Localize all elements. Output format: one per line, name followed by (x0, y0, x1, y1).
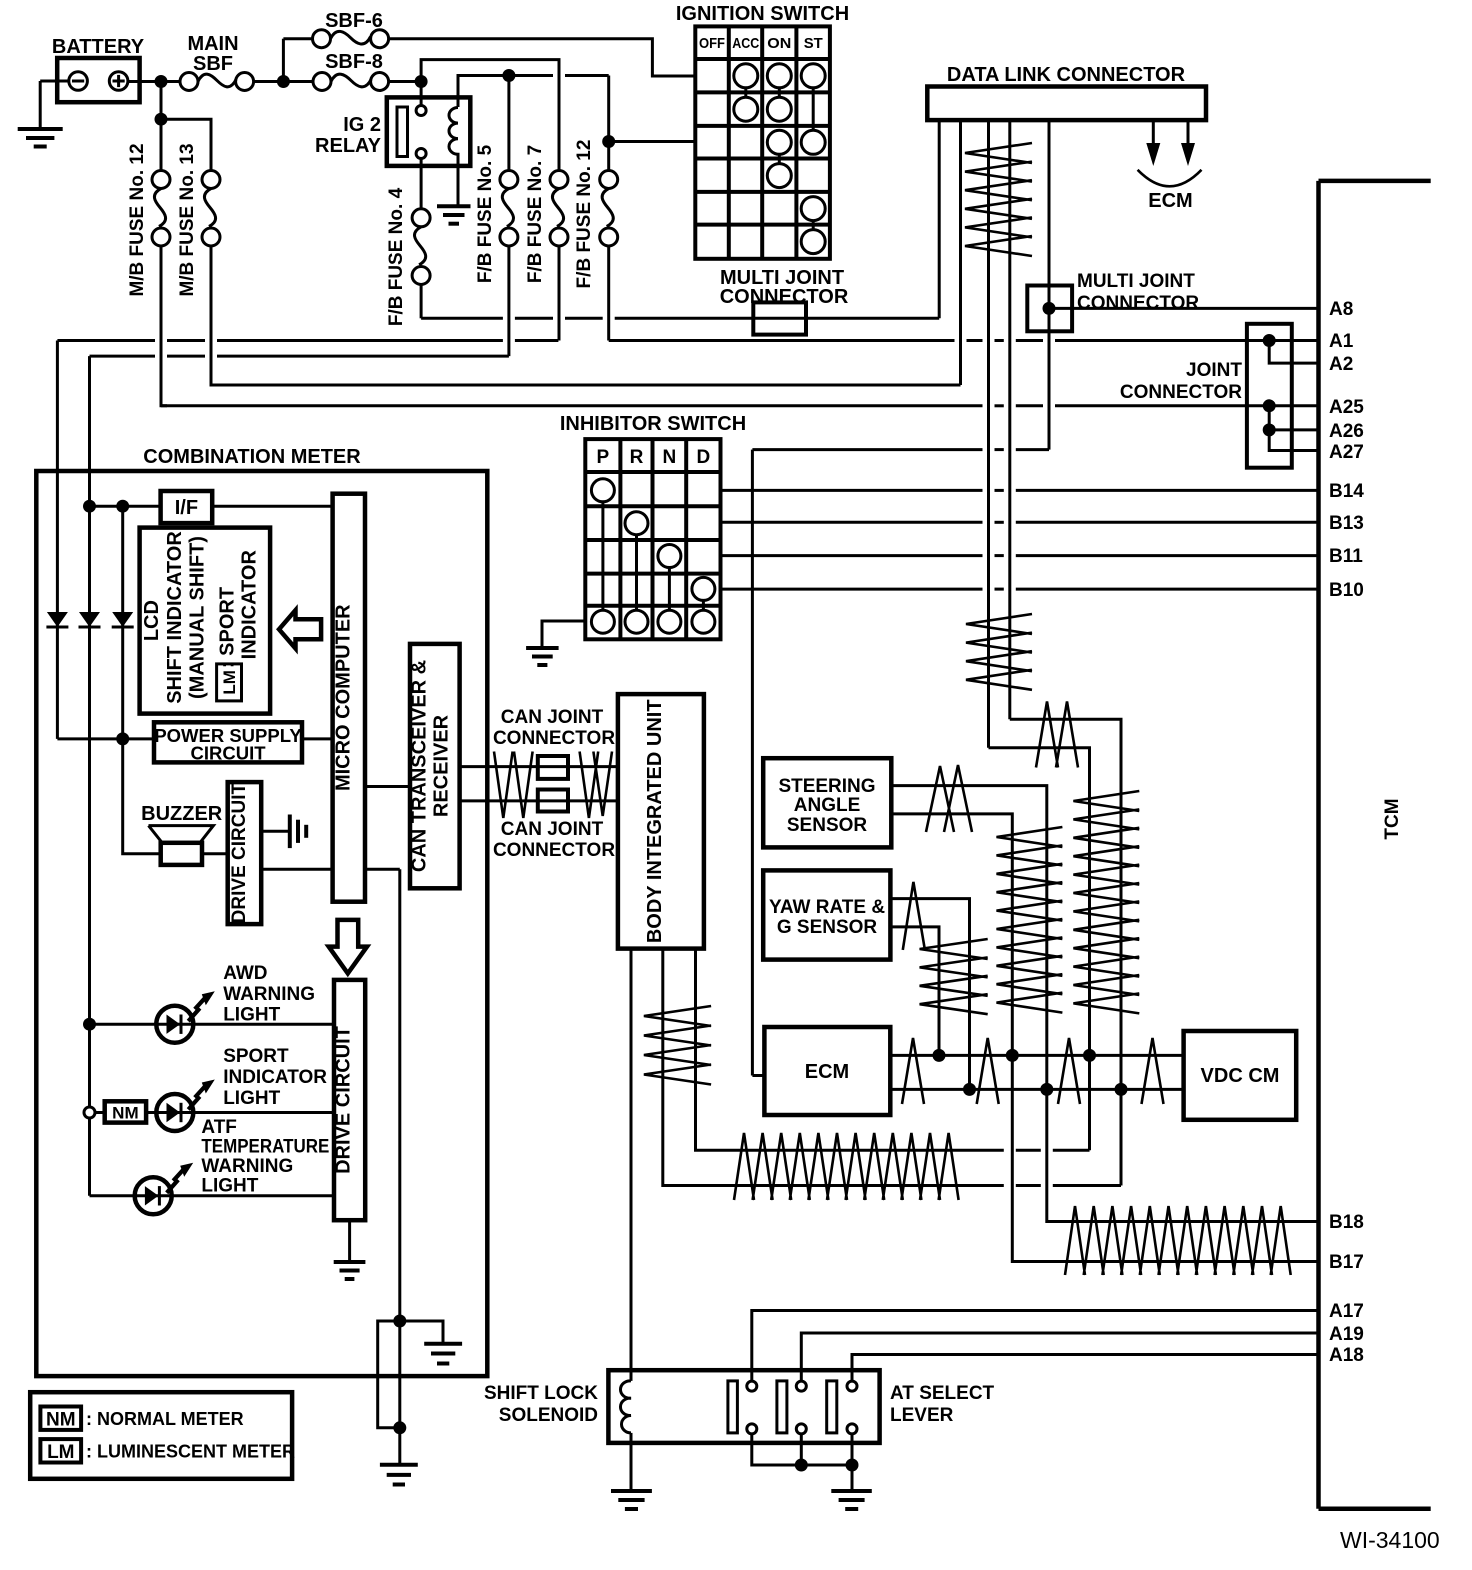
LED sport indicator light (156, 1080, 215, 1132)
label ATF TEMPERATURE WARNING LIGHT (201, 1117, 329, 1197)
wire DLC pin1 drop (938, 120, 941, 318)
fuse M/B FUSE No. 12 (127, 143, 170, 296)
svg-text:DRIVE CIRCUIT: DRIVE CIRCUIT (333, 1026, 355, 1174)
node AWD row junction (83, 1018, 96, 1031)
ground (meter chassis) (380, 1465, 418, 1485)
LED ATF temperature warning light (135, 1163, 194, 1215)
wire inhibitor P to TCM B14 (hop gaps at CAN pair) (721, 489, 1319, 492)
wire relay coil bottom to ground (457, 153, 460, 206)
node J2 SBF-6 branch (277, 75, 290, 88)
wire BIU to shift lock solenoid (630, 949, 633, 1381)
svg-text:IGNITION SWITCH: IGNITION SWITCH (676, 3, 849, 25)
svg-text:CIRCUIT: CIRCUIT (190, 743, 266, 764)
shift lock solenoid / AT select lever box (608, 1370, 879, 1443)
wire J1 down to fuse branch (160, 82, 163, 180)
svg-text:TCM: TCM (1382, 798, 1403, 839)
svg-text:B17: B17 (1329, 1252, 1364, 1273)
legend NM : NORMAL METER (40, 1407, 243, 1431)
label AWD WARNING LIGHT (223, 963, 315, 1026)
wire branch to M/B fuse No.13 (161, 119, 211, 170)
twisted pair (YAW vertical) (920, 939, 988, 1014)
svg-text:B13: B13 (1329, 513, 1364, 534)
wire relay coil top to bus (458, 76, 504, 108)
wire DLC CAN pin3 drop (987, 120, 990, 748)
node bus bottom SAS tap (1040, 1083, 1053, 1096)
node AT select bus 2 (846, 1459, 859, 1472)
node J5 ignition row3 tap (602, 135, 615, 148)
wire YAW CAN H (890, 899, 969, 1090)
twisted pair (DLC CAN upper) (965, 143, 1032, 256)
arrow DLC to ECM pin6 (1146, 120, 1160, 166)
battery BATTERY (52, 36, 145, 102)
svg-text:AWD: AWD (223, 963, 267, 984)
drive circuit DRIVE CIRCUIT (buzzer) (228, 782, 262, 924)
svg-text:ST: ST (804, 35, 823, 52)
node bus top DLC tap (1083, 1049, 1096, 1062)
wire F/B fuse No.12 to TCM A1 (hop gaps at DLC pins) (609, 339, 1319, 342)
wire DLC CAN jog A (989, 748, 1090, 1056)
wire to ignition switch row 3 (609, 140, 696, 143)
svg-text:CONNECTOR: CONNECTOR (493, 728, 615, 749)
svg-text:ACC: ACC (732, 35, 759, 52)
ground (AT select lever) (831, 1491, 872, 1509)
node AT select bus 1 (795, 1459, 808, 1472)
svg-text:IG 2: IG 2 (343, 114, 381, 136)
svg-text:CONNECTOR: CONNECTOR (1120, 382, 1242, 403)
svg-text:R: R (630, 447, 644, 468)
micro computer MICRO COMPUTER (332, 494, 365, 902)
wire solenoid to ground (630, 1433, 633, 1491)
svg-text:F/B FUSE No. 12: F/B FUSE No. 12 (574, 140, 595, 289)
wire CAN bus low (ECM to VDC CM) (890, 1088, 1183, 1091)
wire micro computer to CAN transceiver (365, 785, 410, 788)
diode D1 (meter) (46, 612, 68, 739)
wire M/B fuse No.12 to TCM A25 (hop gaps at DLC pins) (161, 404, 1319, 407)
svg-text:NM: NM (46, 1410, 76, 1431)
svg-text:A26: A26 (1329, 421, 1364, 442)
wire AT select 3 to TCM A18 (852, 1355, 1319, 1382)
wire joint connector A1 to A2 (1269, 341, 1318, 364)
svg-text:SBF-8: SBF-8 (325, 51, 383, 73)
wire BIU CAN drop B (696, 949, 1004, 1151)
svg-text:P: P (597, 447, 610, 468)
wire buzzer to drive circuit 1 (202, 852, 228, 855)
svg-text:(MANUAL SHIFT): (MANUAL SHIFT) (187, 536, 209, 699)
svg-text:ON: ON (767, 35, 791, 52)
node bus top SAS tap (1006, 1049, 1019, 1062)
node joint connector A25 (1263, 399, 1276, 412)
steering angle sensor STEERING ANGLE SENSOR (763, 758, 891, 847)
svg-text:A2: A2 (1329, 354, 1353, 375)
AT select switch 1 (728, 1381, 757, 1434)
wire PSC to micro computer (302, 737, 333, 740)
drive circuit DRIVE CIRCUIT (warning lights) (333, 980, 366, 1220)
wire AWD row (90, 1023, 335, 1026)
wire PSC riser drop (121, 506, 124, 739)
ground (drive circuit 2) (334, 1262, 366, 1279)
node joint connector A1 (1263, 334, 1276, 347)
wire SBF-8 to relay junction (389, 80, 422, 83)
arrow DLC to ECM pin7 (1181, 120, 1195, 166)
fuse F/B FUSE No. 5 (475, 144, 518, 283)
svg-text:SHIFT LOCK: SHIFT LOCK (484, 1383, 598, 1404)
wire MAIN SBF to SBF-8 (254, 80, 313, 83)
svg-text:LM: LM (220, 670, 239, 695)
svg-text:I/F: I/F (175, 497, 198, 519)
wire battery positive bus (128, 80, 180, 83)
svg-text:VDC CM: VDC CM (1201, 1065, 1280, 1087)
svg-text:BUZZER: BUZZER (141, 803, 223, 825)
wire drive circuit 1 to ground (261, 830, 290, 833)
svg-text:SBF: SBF (193, 53, 233, 75)
diode D3 (meter) (112, 612, 134, 627)
svg-text:CAN TRANSCEIVER &: CAN TRANSCEIVER & (409, 660, 431, 872)
wire F/B fuse No.7 output (558, 246, 561, 341)
svg-text:SPORT: SPORT (223, 1046, 289, 1067)
svg-text:SHIFT INDICATOR: SHIFT INDICATOR (164, 531, 186, 704)
twisted pair (B18/B17 horizontal) (1065, 1206, 1291, 1275)
label SPORT INDICATOR LIGHT (223, 1046, 327, 1109)
svg-text:ECM: ECM (1148, 190, 1192, 212)
node J1 battery/fuse junction (155, 75, 168, 88)
buzzer BUZZER (141, 803, 223, 865)
svg-text:RECEIVER: RECEIVER (431, 714, 453, 817)
ground (battery) (18, 129, 63, 147)
connector open circle (sport row) (84, 1107, 95, 1118)
CAN joint connector (upper) (493, 707, 615, 779)
wire F/B fuse No.7 to combination meter (hop gaps at F/B5, M/B13, M/B12) (57, 341, 558, 615)
wire CAN H to body integrated unit (460, 765, 618, 768)
wire inhibitor R to TCM B13 (hop gaps at CAN pair) (721, 521, 1319, 524)
twisted pair (BIU CAN horizontal) (734, 1133, 959, 1200)
fuse F/B FUSE No. 4 (386, 159, 430, 327)
svg-text:RELAY: RELAY (315, 135, 382, 157)
body integrated unit BODY INTEGRATED UNIT (618, 694, 704, 949)
svg-text:MICRO COMPUTER: MICRO COMPUTER (332, 604, 354, 791)
svg-text:MAIN: MAIN (187, 33, 238, 55)
wire meter ground loop (378, 1321, 400, 1428)
node MJC2 junction (1043, 302, 1056, 315)
svg-text:CONNECTOR: CONNECTOR (493, 840, 615, 861)
svg-text:LIGHT: LIGHT (201, 1176, 258, 1197)
node meter ground junction 2 (393, 1421, 406, 1434)
data link connector DATA LINK CONNECTOR (927, 64, 1206, 120)
svg-text:F/B FUSE No. 7: F/B FUSE No. 7 (525, 145, 546, 283)
svg-text:COMBINATION METER: COMBINATION METER (143, 446, 361, 468)
wire F/B fuse No.12 output (607, 246, 610, 341)
node bus bottom DLC tap (1115, 1083, 1128, 1096)
twisted pair (CAN to joint connector, left) (494, 752, 533, 819)
wire TCM A26 stub (1269, 428, 1318, 431)
ground (meter internal) (424, 1344, 462, 1364)
wire AT select 2 to TCM A19 (801, 1333, 1318, 1381)
svg-text:A27: A27 (1329, 442, 1364, 463)
wire MJC2 down to ECM riser (hop gaps at CAN pair) (752, 450, 1049, 1076)
wire joint connector A25 to A26 (1268, 406, 1271, 430)
wire SPORT row (95, 1111, 334, 1114)
wire drive circuit to micro computer to meter ground riser (261, 868, 400, 871)
twisted pair (bus twist 3) (1058, 1038, 1080, 1104)
svg-text:A1: A1 (1329, 331, 1354, 352)
svg-text:MULTI JOINT: MULTI JOINT (1077, 271, 1195, 292)
wire joint connector A26 to A27 (1269, 430, 1318, 451)
ground (shift lock solenoid) (611, 1491, 652, 1509)
svg-text:CONNECTOR: CONNECTOR (720, 286, 849, 308)
combination meter COMBINATION METER box (36, 446, 487, 1376)
wire coil bus to F/B fuse No.5 and No.12 (504, 74, 553, 77)
svg-text:LIGHT: LIGHT (223, 1005, 280, 1026)
wire meter ground riser (398, 869, 401, 1428)
wire F/B fuse No.4 to DLC pin1 (hop gaps at F/B5, F/B7, F/B12) (421, 317, 939, 320)
wire battery negative to ground (40, 80, 69, 83)
twisted pair (bus twist 1) (902, 1038, 924, 1104)
CAN joint connector (lower) (493, 790, 615, 862)
svg-text:JOINT: JOINT (1186, 360, 1242, 381)
wire TCM B17 (1012, 1055, 1318, 1261)
svg-text:DATA LINK CONNECTOR: DATA LINK CONNECTOR (947, 64, 1186, 86)
yaw rate sensor YAW RATE & G SENSOR (763, 870, 890, 959)
wire TCM A8 from MJC2 (1049, 307, 1319, 310)
wire SBF-6 branch riser (282, 39, 285, 82)
arrow (sport indicator pointer) (279, 610, 321, 648)
wire DLC pin5 to MJC2 (1048, 120, 1051, 450)
wire SBF-8 output up-over to F/B fuse No.7 (421, 60, 559, 171)
wire F/B fuse No.4 output to DLC pin1 line (420, 285, 423, 319)
svg-text:LIGHT: LIGHT (223, 1088, 280, 1109)
svg-text:: SPORT: : SPORT (217, 587, 239, 668)
node I/F line PSC drop (116, 500, 129, 513)
wire J3 down to relay contact (420, 82, 423, 107)
svg-text:SBF-6: SBF-6 (325, 10, 383, 32)
AT select switch 3 (827, 1381, 857, 1434)
LCD shift indicator box (140, 528, 271, 714)
node bus top yaw tap (933, 1049, 946, 1062)
twisted pair (DLC CAN lower) (966, 614, 1032, 690)
wire inhibitor D to TCM B10 (hop gaps at CAN pair) (721, 588, 1319, 591)
svg-text:LM: LM (47, 1442, 74, 1463)
svg-text:A18: A18 (1329, 1345, 1364, 1366)
wire SBF-6 to ignition switch (389, 39, 696, 76)
node joint connector A26 (1263, 423, 1276, 436)
ignition switch IGNITION SWITCH (676, 3, 849, 259)
twisted pair (bus twist 4) (1142, 1038, 1164, 1104)
NM box (sport row) (105, 1101, 146, 1122)
svg-text:OFF: OFF (699, 35, 725, 52)
svg-text:F/B FUSE No. 5: F/B FUSE No. 5 (475, 144, 496, 283)
joint connector JOINT CONNECTOR (1120, 324, 1292, 468)
svg-text:DRIVE CIRCUIT: DRIVE CIRCUIT (229, 783, 250, 924)
fuse SBF-8 (313, 51, 389, 91)
svg-text:A25: A25 (1329, 397, 1364, 418)
wire inhibitor switch common to ground (542, 621, 585, 648)
twisted pair (SAS horizontal) (926, 765, 972, 832)
svg-text:N: N (663, 447, 677, 468)
wire AT select 1 to TCM A17 (752, 1311, 1319, 1382)
svg-text:CAN JOINT: CAN JOINT (501, 819, 604, 840)
VDC control module VDC CM (1184, 1031, 1297, 1120)
wire to chassis ground (398, 1428, 401, 1465)
svg-text:TEMPERATURE: TEMPERATURE (201, 1137, 329, 1158)
wire SAS CAN H (891, 786, 1047, 1090)
fuse M/B FUSE No. 13 (177, 143, 220, 296)
svg-text:B10: B10 (1329, 580, 1364, 601)
svg-text:STEERING: STEERING (778, 776, 875, 797)
label SHIFT LOCK SOLENOID (484, 1383, 598, 1426)
wire M/B fuse No.12 to TCM A25 line (161, 246, 167, 406)
wire DLC CAN jog B (1010, 719, 1121, 1089)
node meter ground junction 1 (393, 1315, 406, 1328)
svg-text:INDICATOR: INDICATOR (223, 1067, 327, 1088)
svg-text:A8: A8 (1329, 299, 1353, 320)
interface I/F box (161, 491, 213, 523)
wire BIU CAN A continue (hop gaps) (1016, 1089, 1121, 1185)
wire buzzer feed riser (123, 739, 161, 854)
svg-text:: LUMINESCENT METER: : LUMINESCENT METER (86, 1442, 295, 1462)
wire I/F feed line (90, 505, 161, 508)
svg-text:INDICATOR: INDICATOR (239, 550, 261, 660)
svg-text:A17: A17 (1329, 1301, 1364, 1322)
svg-text:B18: B18 (1329, 1212, 1364, 1233)
svg-text:B11: B11 (1329, 546, 1363, 567)
wire BIU CAN B continue (hop gaps) (1016, 1055, 1090, 1150)
wire M/B fuse No.13 to DLC pin2 (211, 120, 961, 385)
svg-text:M/B FUSE No. 12: M/B FUSE No. 12 (127, 143, 148, 296)
wire SAS CAN L (891, 814, 1012, 1056)
svg-text:F/B FUSE No. 4: F/B FUSE No. 4 (386, 187, 407, 326)
multi joint connector MJC1 (below ignition switch) (720, 267, 849, 335)
svg-text:: NORMAL METER: : NORMAL METER (86, 1409, 244, 1429)
relay IG 2 RELAY (315, 97, 470, 165)
wire F/B fuse No.5 to combination meter (hop gaps at M/B13, M/B12) (90, 356, 509, 614)
wire TCM B18 (1047, 1089, 1319, 1221)
wire F/B fuse No.5 drop (507, 76, 510, 171)
wire CAN bus high (ECM to VDC CM) (890, 1054, 1183, 1057)
svg-text:YAW RATE &: YAW RATE & (769, 897, 885, 918)
AT select switch 2 (777, 1381, 806, 1434)
twisted pair (CAN trunk vertical) (1073, 791, 1139, 1013)
arrow (micro to drive circuit 2) (329, 920, 367, 974)
svg-text:LEVER: LEVER (890, 1405, 954, 1426)
svg-text:ECM: ECM (805, 1061, 849, 1083)
node I/F line M/B13 vertical (83, 500, 96, 513)
wire ECM left input from MJC2 riser (752, 1074, 764, 1077)
twisted pair (CAN jog twist) (1036, 702, 1078, 768)
node J4 F/B fuse No.5 tap (502, 69, 515, 82)
svg-text:ATF: ATF (201, 1117, 237, 1138)
svg-text:CONNECTOR: CONNECTOR (1077, 293, 1199, 314)
LED AWD warning light (156, 991, 215, 1042)
svg-text:WARNING: WARNING (201, 1156, 293, 1177)
ECM arc symbol (1138, 170, 1202, 212)
wire M/B fuse No.13 to DLC line (211, 246, 217, 385)
wire ATF row (90, 1194, 335, 1197)
wire BIU CAN drop A (663, 949, 1004, 1186)
node PSC feed junction (116, 732, 129, 745)
svg-text:D: D (697, 447, 711, 468)
svg-text:BATTERY: BATTERY (52, 36, 145, 58)
solenoid coil (shift lock) (620, 1381, 631, 1433)
wire F/B fuse No.5 output (507, 246, 510, 356)
svg-text:CAN JOINT: CAN JOINT (501, 707, 604, 728)
wire CAN L to body integrated unit (460, 799, 618, 802)
power supply circuit POWER SUPPLY CIRCUIT (154, 722, 302, 763)
ground (inhibitor switch) (526, 648, 559, 665)
wire AT select common bus (752, 1434, 852, 1465)
node J6 M/B fuse branch (155, 113, 168, 126)
svg-text:LCD: LCD (141, 600, 163, 641)
svg-text:SOLENOID: SOLENOID (499, 1405, 598, 1426)
twisted pair (SAS vertical) (997, 827, 1063, 1013)
svg-text:A19: A19 (1329, 1324, 1364, 1345)
svg-text:BODY INTEGRATED UNIT: BODY INTEGRATED UNIT (644, 699, 666, 943)
svg-text:ANGLE: ANGLE (794, 795, 861, 816)
TCM box outline (1319, 181, 1431, 1509)
fuse F/B FUSE No. 7 (525, 145, 568, 283)
wire inhibitor N to TCM B11 (hop gaps at CAN pair) (721, 554, 1319, 557)
ground (drive circuit 1, sideways) (290, 815, 306, 849)
twisted pair (BIU CAN vertical) (644, 1006, 711, 1085)
svg-text:WARNING: WARNING (223, 984, 315, 1005)
fuse MAIN SBF (180, 33, 254, 91)
svg-text:G SENSOR: G SENSOR (777, 917, 878, 938)
wire to meter internal ground (400, 1321, 443, 1344)
inhibitor switch INHIBITOR SWITCH (560, 413, 746, 639)
ground (IG2 relay coil) (437, 206, 471, 223)
wire I/F to micro computer (212, 505, 332, 508)
svg-text:AT SELECT: AT SELECT (890, 1383, 995, 1404)
svg-text:B14: B14 (1329, 481, 1364, 502)
svg-text:WI-34100: WI-34100 (1340, 1527, 1440, 1553)
twisted pair (CAN to joint connector, right) (580, 752, 612, 819)
node J3 SBF-8 output (415, 75, 428, 88)
wire DLC CAN pin4 drop (1008, 120, 1011, 719)
svg-text:M/B FUSE No. 13: M/B FUSE No. 13 (177, 143, 198, 296)
multi joint connector MJC2 (1027, 271, 1199, 331)
svg-text:SENSOR: SENSOR (787, 815, 868, 836)
fuse F/B FUSE No. 12 (574, 140, 618, 289)
fuse SBF-6 (313, 10, 389, 48)
svg-text:INHIBITOR SWITCH: INHIBITOR SWITCH (560, 413, 746, 435)
label AT SELECT LEVER (890, 1383, 995, 1426)
legend LM : LUMINESCENT METER (40, 1439, 295, 1463)
wire YAW CAN L (890, 927, 939, 1056)
twisted pair (bus twist 2) (977, 1038, 999, 1104)
CAN transceiver CAN TRANSCEIVER & RECEIVER (409, 644, 460, 888)
wire drive circuit 2 to ground (348, 1220, 351, 1262)
diode D2 (meter) (79, 612, 101, 1196)
twisted pair (YAW single twist) (903, 882, 925, 950)
legend box (30, 1392, 292, 1479)
ECM box (764, 1027, 890, 1115)
svg-text:NM: NM (112, 1104, 138, 1123)
node bus bottom yaw tap (963, 1083, 976, 1096)
power supply circuit box feed (57, 737, 154, 740)
